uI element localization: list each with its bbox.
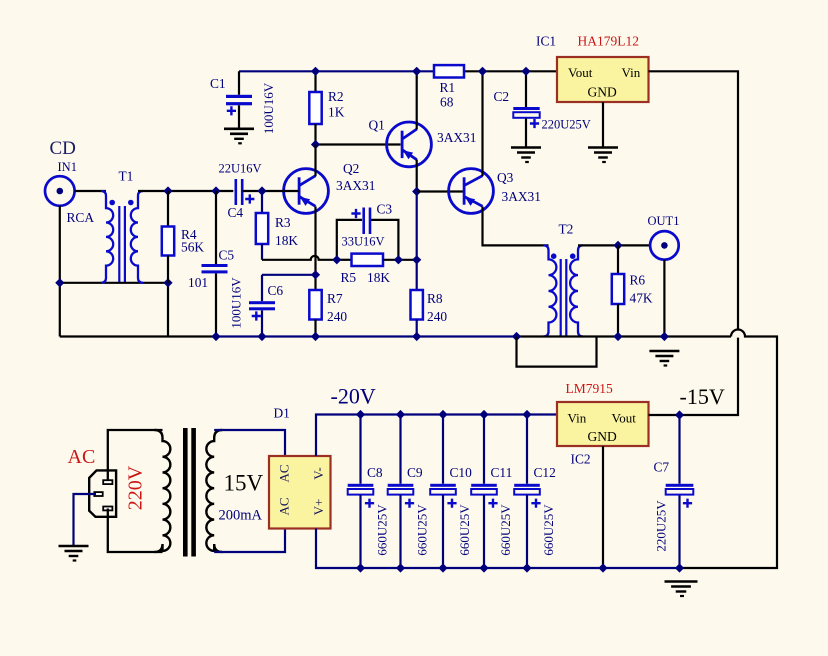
- svg-text:Vin: Vin: [622, 65, 641, 80]
- svg-text:18K: 18K: [367, 270, 390, 285]
- svg-text:Q3: Q3: [497, 170, 514, 185]
- output connector OUT1: [650, 231, 679, 260]
- node: C5 top junction: [211, 186, 220, 195]
- transistor Q3 3AX31: [449, 169, 494, 214]
- AC mains plug: [89, 470, 116, 516]
- svg-text:Vout: Vout: [568, 65, 593, 80]
- wire: IC1 Vin to right rail, down to -15V node: [649, 71, 739, 415]
- node: R4 bottom junction: [163, 278, 172, 287]
- wire: IN1 to T1 primary: [75, 190, 106, 192]
- svg-text:18K: 18K: [275, 233, 298, 248]
- wire: plug bottom prong to transformer primary bottom: [108, 509, 163, 553]
- svg-text:47K: 47K: [630, 291, 653, 306]
- capacitor C10: [442, 415, 444, 484]
- svg-text:-15V: -15V: [680, 384, 725, 409]
- svg-text:660U25V: 660U25V: [498, 504, 513, 556]
- svg-text:R6: R6: [630, 273, 646, 288]
- wire: amplifier top supply rail (-12V): [239, 70, 434, 72]
- wire: C4 to Q2 base: [243, 190, 299, 192]
- svg-text:IN1: IN1: [58, 160, 77, 174]
- node: OUT1 ground junction: [660, 332, 669, 341]
- wire: amp bottom ground rail: [60, 335, 216, 337]
- IC2 GND pin wire: [602, 446, 604, 568]
- svg-text:22U16V: 22U16V: [219, 161, 262, 175]
- phase dot T1 right: [128, 200, 134, 206]
- resistor R8: [411, 290, 423, 320]
- phase dot T2 right: [570, 253, 576, 259]
- svg-text:HA179L12: HA179L12: [578, 33, 640, 48]
- node: R5 right junction: [394, 255, 403, 264]
- svg-text:C7: C7: [654, 459, 670, 474]
- svg-text:68: 68: [440, 94, 454, 109]
- svg-text:3AX31: 3AX31: [502, 189, 541, 204]
- svg-text:660U25V: 660U25V: [415, 504, 430, 556]
- input connector IN1 RCA: [45, 176, 75, 206]
- wire: Q3 collector to top rail: [481, 71, 483, 176]
- node: C10 top: [438, 410, 447, 419]
- node: C5 bottom: [211, 332, 220, 341]
- wire: Q1 collector to top rail: [416, 71, 418, 129]
- node: C12 top: [522, 410, 531, 419]
- svg-text:D1: D1: [274, 406, 290, 421]
- svg-text:AC: AC: [277, 497, 292, 515]
- node: -15V / C7 junction: [675, 410, 684, 419]
- svg-text:240: 240: [327, 309, 347, 324]
- wire: junction to Q3 base: [417, 190, 464, 192]
- wire: Q2 emitter down through R7 node: [314, 207, 316, 291]
- svg-text:660U25V: 660U25V: [541, 504, 556, 556]
- svg-text:15V: 15V: [224, 471, 264, 496]
- resistor R1: [434, 65, 464, 77]
- svg-text:IC2: IC2: [571, 452, 591, 467]
- svg-text:C6: C6: [268, 283, 284, 298]
- wire: secondary top to D1: [214, 430, 285, 456]
- wire: D1 V+ down to ground rail: [316, 529, 680, 569]
- svg-text:100U16V: 100U16V: [261, 82, 276, 134]
- resistor R7: [309, 290, 321, 320]
- power transformer primary coil: [155, 430, 171, 552]
- capacitor C8: [359, 415, 361, 484]
- wire: Q1 emitter node down to R5 node and R8: [416, 192, 418, 291]
- node: R5 left junction: [332, 255, 341, 264]
- svg-text:IC1: IC1: [536, 34, 556, 49]
- node: C8 top: [356, 410, 365, 419]
- wire: T2 bottom return loop: [517, 337, 597, 367]
- transistor Q2 3AX31: [284, 169, 329, 214]
- svg-text:C4: C4: [228, 205, 244, 220]
- capacitor C5: [215, 191, 217, 264]
- wire: D1 V- up to -20V rail: [316, 415, 557, 457]
- wire: R3 bottom to R5 node with hop over Q2 emitter: [261, 244, 263, 260]
- ground below PSU rail: [665, 580, 698, 583]
- svg-text:V+: V+: [311, 499, 326, 516]
- capacitor C7: [678, 415, 680, 484]
- node: R6 top junction: [613, 241, 622, 250]
- capacitor C3: [337, 220, 362, 260]
- node: C10 bottom: [438, 563, 447, 572]
- node: C9 top: [396, 410, 405, 419]
- svg-text:AC: AC: [277, 464, 292, 482]
- capacitor C12: [526, 415, 528, 484]
- node: C11 bottom: [479, 563, 488, 572]
- node: C11 top: [479, 410, 488, 419]
- wire: plug top prong to transformer primary top: [108, 430, 163, 480]
- svg-text:C12: C12: [534, 465, 556, 480]
- node: C12 bottom: [522, 563, 531, 572]
- svg-text:OUT1: OUT1: [648, 214, 680, 228]
- svg-text:C5: C5: [219, 247, 235, 262]
- wire: C6 to Q2 emitter node: [262, 274, 316, 276]
- svg-text:R8: R8: [427, 291, 443, 306]
- capacitor C9: [399, 415, 401, 484]
- svg-text:C11: C11: [491, 465, 513, 480]
- svg-text:R1: R1: [440, 80, 456, 95]
- resistor R3: [261, 191, 263, 213]
- svg-text:101: 101: [188, 275, 208, 290]
- ground below C2: [511, 146, 541, 149]
- node: Q1 emitter / Q3 base junction: [412, 187, 421, 196]
- svg-text:220U25V: 220U25V: [542, 118, 591, 132]
- node: C9 bottom: [396, 563, 405, 572]
- resistor R2: [314, 71, 316, 92]
- node: C8 bottom: [356, 563, 365, 572]
- capacitor C1: [238, 71, 240, 95]
- svg-text:LM7915: LM7915: [566, 381, 614, 396]
- svg-text:GND: GND: [588, 429, 617, 444]
- svg-text:R5: R5: [341, 270, 357, 285]
- resistor R4: [167, 191, 169, 227]
- node: IN1 shield junction: [55, 278, 64, 287]
- svg-text:660U25V: 660U25V: [375, 504, 390, 556]
- svg-text:RCA: RCA: [67, 210, 95, 225]
- svg-text:R7: R7: [327, 291, 343, 306]
- IC2 Vout pin wire: [649, 414, 680, 416]
- wire: ground rail under T2 to OUT1 ground: [517, 335, 732, 337]
- svg-text:3AX31: 3AX31: [336, 178, 375, 193]
- resistor R5: [337, 259, 352, 261]
- wire: IN1 shield down and to ground loop: [60, 206, 168, 337]
- svg-text:220U25V: 220U25V: [654, 500, 669, 552]
- wire: plug earth to ground: [74, 494, 97, 545]
- svg-text:CD: CD: [50, 138, 76, 159]
- svg-text:Vin: Vin: [568, 410, 587, 425]
- node: C7 bottom ground junction: [675, 563, 684, 572]
- svg-text:T2: T2: [559, 222, 574, 237]
- node: C6 bottom: [257, 332, 266, 341]
- svg-text:200mA: 200mA: [219, 508, 263, 524]
- capacitor C4: [235, 179, 238, 205]
- svg-text:V-: V-: [311, 467, 326, 480]
- power transformer secondary coil: [206, 430, 222, 552]
- node: Q2 emitter / C6 junction: [311, 270, 320, 279]
- svg-text:C10: C10: [450, 465, 473, 480]
- svg-text:AC: AC: [68, 446, 96, 468]
- capacitor C2: [525, 71, 527, 107]
- node: R5 to Q1 emitter line junction: [412, 255, 421, 264]
- wire: Q3 emitter to T2 primary: [483, 207, 549, 246]
- svg-text:T1: T1: [119, 169, 134, 184]
- svg-text:1K: 1K: [328, 105, 345, 120]
- node: R6 bottom junction: [613, 332, 622, 341]
- svg-text:C3: C3: [377, 201, 393, 216]
- wire: secondary bottom to D1: [214, 529, 285, 553]
- IC1 regulator HA179L12 box: [557, 57, 649, 102]
- svg-text:C9: C9: [407, 465, 423, 480]
- ground below C1: [224, 128, 254, 131]
- bridge rectifier D1 box: [269, 456, 331, 529]
- wire hop: ground rail over -15V rail, corner to PSU: [680, 330, 778, 569]
- wire: T2 secondary to OUT1: [578, 244, 650, 246]
- wire: R2 bottom to Q1 base: [316, 143, 401, 145]
- node: IC2 GND to rail: [598, 563, 607, 572]
- wire: rail between R1 and IC1 Vout: [464, 70, 557, 72]
- svg-text:660U25V: 660U25V: [457, 504, 472, 556]
- wire: T1 secondary top to C4: [138, 190, 233, 192]
- power transformer core: [183, 428, 188, 557]
- svg-text:R3: R3: [275, 215, 291, 230]
- svg-text:Q1: Q1: [369, 118, 385, 133]
- svg-text:100U16V: 100U16V: [229, 277, 244, 329]
- svg-text:3AX31: 3AX31: [437, 130, 476, 145]
- node: R7 bottom: [311, 332, 320, 341]
- node: R2 top junction: [311, 67, 320, 76]
- svg-text:C8: C8: [367, 465, 383, 480]
- svg-text:-20V: -20V: [331, 384, 376, 409]
- transistor Q1 3AX31: [387, 122, 432, 167]
- resistor R6: [617, 245, 619, 274]
- node: C4 right junction: [257, 186, 266, 195]
- svg-text:Vout: Vout: [612, 410, 637, 425]
- node: R8 bottom: [412, 332, 421, 341]
- svg-text:C2: C2: [494, 89, 510, 104]
- node: T2 ground junction: [512, 332, 521, 341]
- ground below IC1: [588, 146, 618, 149]
- wire: Q1 emitter down to Q3 base node: [416, 160, 418, 192]
- node: R4 top junction: [163, 186, 172, 195]
- svg-text:R2: R2: [328, 89, 344, 104]
- phase dot T1 left: [109, 200, 115, 206]
- svg-text:C1: C1: [210, 76, 226, 91]
- ground below OUT1: [649, 350, 679, 353]
- IC2 regulator LM7915 box: [557, 402, 649, 446]
- svg-text:Q2: Q2: [343, 161, 359, 176]
- ground below plug: [59, 545, 89, 548]
- node: R2/Q2 collector/Q1 base junction: [311, 140, 320, 149]
- svg-text:33U16V: 33U16V: [342, 235, 385, 249]
- phase dot T2 left: [551, 253, 557, 259]
- capacitor C11: [483, 415, 485, 484]
- svg-text:220V: 220V: [124, 465, 146, 510]
- wire: OUT1 shield down to ground: [663, 260, 665, 337]
- capacitor C6: [261, 275, 263, 301]
- IC1 GND pin wire: [602, 102, 604, 147]
- wire: Q2 collector up to R2 node: [314, 145, 316, 177]
- svg-text:56K: 56K: [181, 240, 204, 255]
- svg-text:240: 240: [427, 309, 447, 324]
- svg-text:GND: GND: [588, 84, 617, 99]
